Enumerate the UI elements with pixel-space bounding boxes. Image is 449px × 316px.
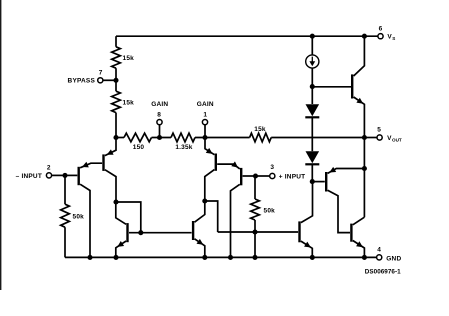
svg-text:50k: 50k: [264, 208, 276, 215]
svg-text:15k: 15k: [123, 55, 135, 62]
svg-text:GND: GND: [386, 255, 401, 262]
svg-text:GAIN: GAIN: [151, 101, 168, 108]
svg-text:S: S: [392, 36, 395, 41]
svg-text:DS006976-1: DS006976-1: [365, 269, 401, 276]
svg-text:2: 2: [47, 165, 51, 172]
svg-text:150: 150: [133, 144, 145, 151]
svg-text:7: 7: [99, 70, 103, 77]
svg-text:5: 5: [377, 126, 381, 133]
svg-text:15k: 15k: [254, 126, 266, 133]
svg-text:BYPASS: BYPASS: [68, 78, 96, 85]
svg-text:8: 8: [157, 111, 161, 118]
svg-text:3: 3: [270, 164, 274, 171]
svg-text:4: 4: [377, 247, 381, 254]
svg-text:GAIN: GAIN: [197, 101, 214, 108]
svg-text:OUT: OUT: [392, 138, 402, 143]
svg-text:+ INPUT: + INPUT: [279, 173, 306, 180]
svg-text:– INPUT: – INPUT: [16, 173, 42, 180]
svg-text:1: 1: [203, 111, 207, 118]
svg-text:6: 6: [379, 26, 383, 33]
svg-text:50k: 50k: [73, 213, 85, 220]
svg-text:15k: 15k: [123, 100, 135, 107]
svg-text:1.35k: 1.35k: [175, 144, 192, 151]
